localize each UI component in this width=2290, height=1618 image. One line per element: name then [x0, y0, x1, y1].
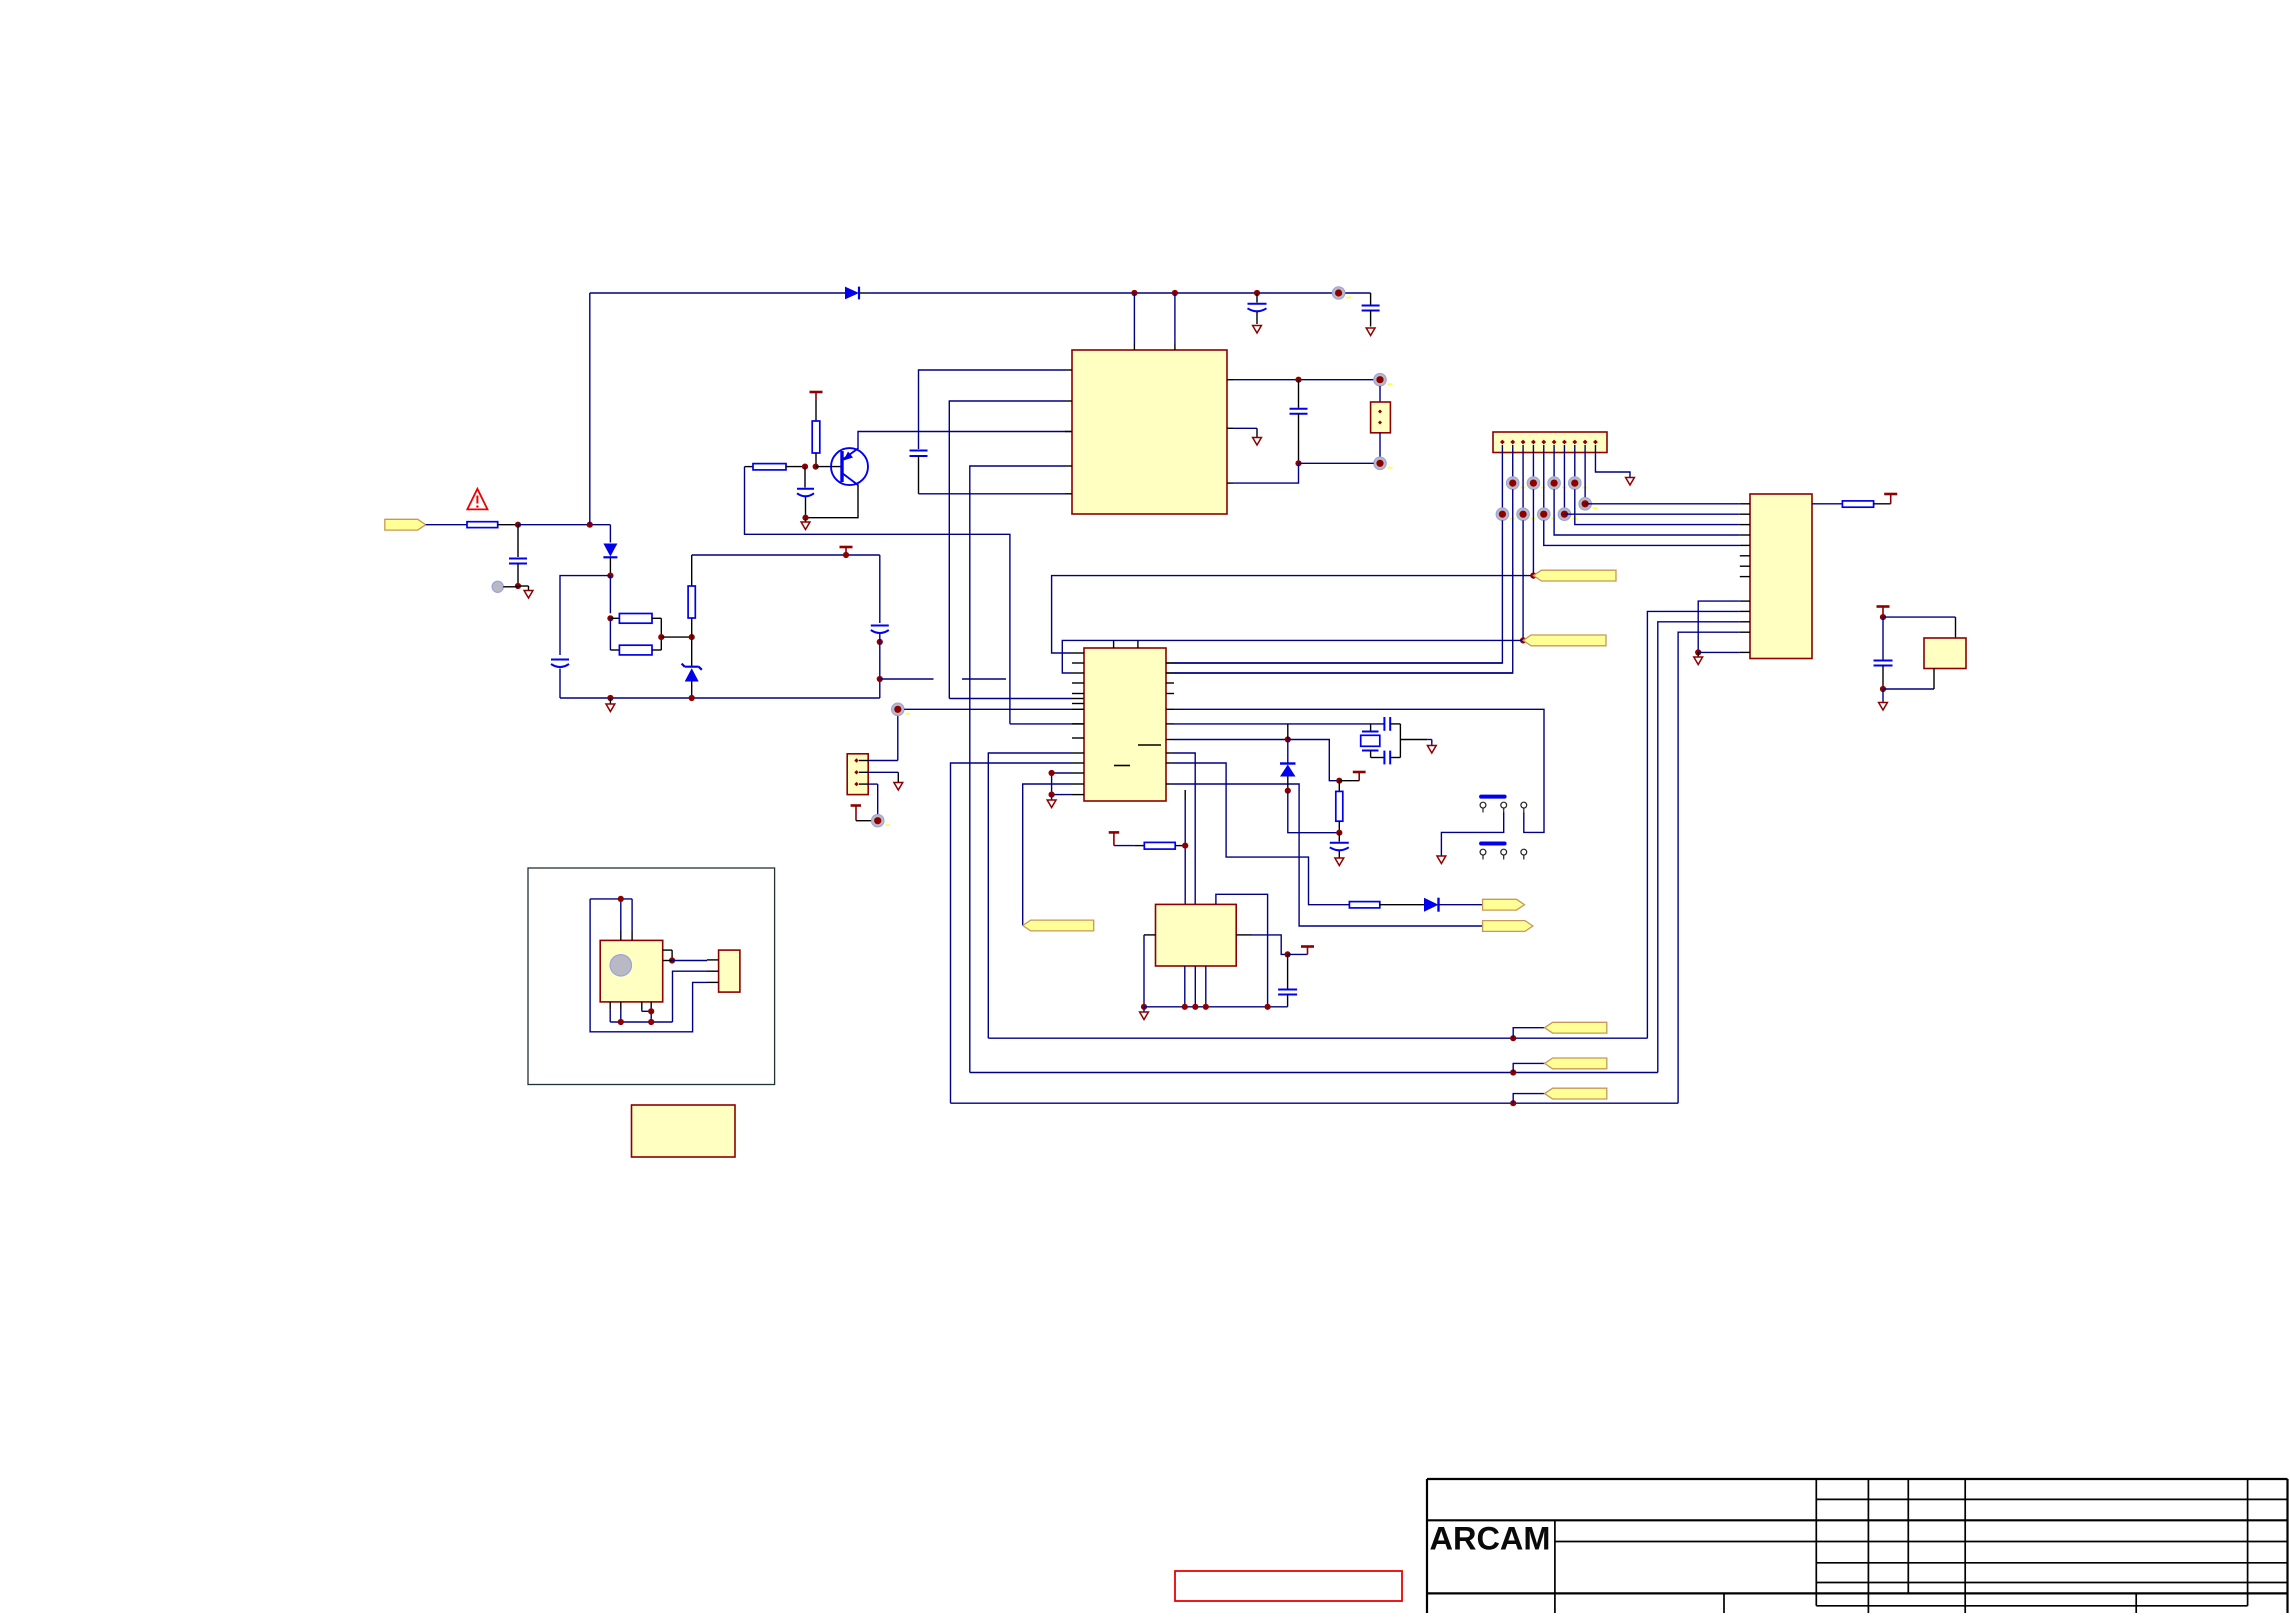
wire p1 net	[1174, 662, 1502, 664]
wire xtal gnd	[1399, 724, 1401, 758]
wire MCU dn2	[951, 763, 1073, 1103]
junction	[843, 552, 849, 558]
junction	[1285, 736, 1291, 742]
wire R2R3 right	[660, 618, 662, 650]
wire bus3 flag riser	[1513, 1094, 1544, 1104]
junction	[813, 464, 819, 470]
junction	[1695, 649, 1701, 655]
junction	[607, 615, 613, 621]
capacitor C12	[1383, 717, 1385, 731]
capacitor C1	[1256, 293, 1258, 303]
diode D5	[1287, 740, 1289, 763]
wire input to R1	[426, 524, 467, 526]
wire stub right 2	[962, 678, 1006, 680]
test point	[1496, 508, 1509, 521]
wire left branch	[560, 576, 610, 655]
IC U3	[1156, 904, 1237, 966]
wire p9 to U2	[1584, 510, 1586, 514]
wire sensor out2	[663, 960, 672, 962]
wire base	[816, 466, 842, 468]
wire p3 to flag	[1522, 520, 1524, 640]
ground	[1335, 858, 1344, 866]
junction	[1172, 290, 1178, 296]
resistor R2	[610, 617, 619, 619]
junction	[658, 634, 664, 640]
wire bus2	[970, 1072, 1658, 1074]
junction	[802, 515, 808, 521]
wire to U4	[1883, 616, 1956, 618]
ground	[1253, 326, 1262, 334]
wire U1 pin1 to C7	[919, 370, 1066, 449]
wire cap to rail	[559, 669, 561, 699]
diode D2	[603, 544, 617, 557]
wire diode row	[1174, 739, 1288, 741]
junction	[877, 639, 883, 645]
wire sensor out1	[663, 949, 672, 951]
flag BUS3	[1545, 1088, 1607, 1099]
wire J1 p5	[1543, 445, 1545, 508]
assembly outline	[528, 868, 775, 1085]
junction	[802, 464, 808, 470]
wire J1 p4	[1532, 445, 1534, 477]
wire U3 gnd rail	[1144, 1006, 1288, 1008]
wire loop right	[879, 555, 881, 623]
wire p2 to MCU	[1174, 489, 1513, 673]
wire p2 net	[1174, 672, 1513, 674]
capacitor C6	[804, 467, 806, 488]
flag OUT1	[1483, 899, 1525, 910]
wire U2 b	[1658, 622, 1740, 1073]
wire U1 out net	[1233, 379, 1374, 381]
pin stubs U2 left	[1740, 503, 1750, 505]
wire p5 to U2	[1544, 520, 1740, 545]
junction	[1265, 1004, 1271, 1010]
wire sensor bottom	[609, 1002, 611, 1010]
wire J4 p2 gnd	[868, 771, 898, 773]
wire loop bottom rail	[560, 697, 880, 699]
wire xtal stub	[1287, 724, 1289, 740]
pin stubs U5 left	[1072, 652, 1084, 654]
ground	[1427, 746, 1436, 754]
wire U3 out	[1236, 934, 1252, 936]
net port	[492, 581, 503, 592]
ground	[1697, 652, 1699, 656]
test point	[1558, 508, 1571, 521]
capacitor C9	[1882, 617, 1884, 659]
wire C7 to U1	[919, 493, 1066, 495]
junction	[1182, 843, 1188, 849]
wire U3 bottom pins	[1184, 966, 1186, 1007]
flag OUT2	[1483, 921, 1533, 932]
wire J1 p6	[1553, 445, 1555, 477]
junction	[1049, 770, 1055, 776]
warning symbol	[467, 489, 487, 510]
capacitor C10	[1338, 833, 1340, 842]
switch SW1	[1481, 795, 1505, 799]
junction	[587, 522, 593, 528]
junction	[1049, 792, 1055, 798]
wire to R4 node	[661, 636, 691, 638]
IC U2	[1750, 494, 1812, 659]
capacitor C3	[517, 525, 519, 557]
wire J4 p1 to TP4	[868, 760, 898, 762]
junction	[607, 695, 613, 701]
resistor R5	[812, 421, 820, 453]
wire zener branch	[609, 576, 611, 614]
resistor R8	[1349, 902, 1379, 908]
junction	[877, 676, 883, 682]
ground	[1366, 328, 1375, 336]
junction	[648, 1008, 654, 1014]
wire p4 to flag	[1532, 489, 1534, 575]
junction	[1530, 573, 1536, 579]
wire gnd pin	[1698, 651, 1740, 653]
transistor Q1	[831, 448, 868, 485]
wire U3 pin3 net	[1216, 894, 1268, 1007]
wire U2 c	[1678, 632, 1740, 1103]
wire J1 p1	[1501, 445, 1503, 508]
wire J1 p3	[1522, 445, 1524, 508]
junction	[1510, 1035, 1516, 1041]
test point	[1517, 508, 1530, 521]
power tap	[810, 391, 823, 394]
wire U1 vdd pins	[1133, 293, 1135, 344]
wire U1 pin2	[949, 401, 1065, 699]
wire to R10	[1288, 740, 1340, 781]
wire flag3 net	[1023, 784, 1072, 926]
test point TP2	[1374, 373, 1387, 386]
junction	[1192, 1004, 1198, 1010]
power tap	[1884, 493, 1897, 496]
junction	[1203, 1004, 1209, 1010]
wire bus2 flag riser	[1513, 1063, 1544, 1072]
flag BUS2	[1545, 1058, 1607, 1069]
junction	[669, 957, 675, 963]
capacitor C11	[1287, 954, 1289, 988]
junction	[515, 522, 521, 528]
junction	[648, 1019, 654, 1025]
wire sensor pin2 net	[673, 971, 708, 1022]
wire bus3	[951, 1102, 1679, 1104]
wire U2 gnd net	[1698, 601, 1740, 652]
junction	[1285, 788, 1291, 794]
junction	[1285, 951, 1291, 957]
connector J2	[719, 950, 740, 992]
junction	[1520, 637, 1526, 643]
wire SW1 gnd	[1441, 813, 1503, 856]
capacitor C4	[551, 659, 569, 661]
switch SW2	[1481, 842, 1505, 846]
capacitor C13	[1371, 757, 1385, 759]
wire J4 p3	[868, 783, 878, 785]
ground	[894, 783, 903, 791]
crystal X1	[1370, 724, 1372, 732]
sensor U6	[600, 940, 663, 1002]
wire sensor loop	[620, 899, 622, 931]
capacitor C8	[1298, 380, 1300, 408]
wire top rail right	[868, 292, 1371, 294]
IC U4	[1924, 638, 1966, 669]
flag SENSE	[1023, 920, 1094, 931]
wire U2 a	[1647, 611, 1739, 1038]
capacitor C2	[1370, 293, 1372, 305]
pin stubs U1 right	[1227, 379, 1233, 381]
test point	[1579, 498, 1592, 511]
resistor R4	[691, 555, 693, 586]
ground	[518, 585, 529, 587]
junction	[618, 1019, 624, 1025]
wire MCU dn1	[988, 753, 1072, 1038]
wire top rail left	[590, 292, 845, 294]
resistor R7	[1812, 503, 1842, 505]
wire res diode net	[1174, 763, 1349, 905]
test point TP5	[871, 814, 884, 827]
wire loop top rail	[692, 554, 880, 556]
resistor R10	[1338, 781, 1340, 792]
wire U4 gnd	[1883, 688, 1934, 690]
junction	[689, 695, 695, 701]
ground	[805, 518, 807, 522]
test point	[1506, 477, 1519, 490]
test point TP3	[1374, 457, 1387, 470]
wire cap to corner	[879, 634, 881, 698]
power tap	[1114, 845, 1134, 847]
junction	[607, 573, 613, 579]
ground	[1051, 795, 1053, 800]
wire U1 pin4	[970, 466, 1065, 1073]
power tap	[840, 546, 853, 549]
svg-text:ARCAM: ARCAM	[1430, 1521, 1551, 1557]
input power flag	[385, 519, 426, 530]
wire zener loop	[1288, 791, 1340, 833]
junction	[1880, 614, 1886, 620]
power tap	[1339, 780, 1359, 782]
wire TP4 to MCU	[904, 708, 1072, 710]
junction	[1510, 1100, 1516, 1106]
MCU internal marks	[1138, 744, 1161, 746]
wire bus1 flag riser	[1513, 1028, 1544, 1039]
ground	[1253, 438, 1262, 446]
IC U1	[1072, 350, 1227, 514]
wire flag2 net	[1062, 640, 1523, 673]
junction	[1131, 290, 1137, 296]
test point TP4	[892, 703, 905, 716]
wire flag1 net	[1052, 576, 1534, 653]
resistor R3	[610, 649, 619, 651]
flag RX	[1523, 635, 1606, 646]
wire flag net2	[1174, 784, 1483, 926]
wire MCU gnd pins	[1052, 772, 1072, 774]
junction	[1510, 1069, 1516, 1075]
jumper J3	[1379, 386, 1381, 402]
wire to MCU pin	[949, 698, 1072, 700]
wire U1 gnd pin	[1233, 427, 1257, 429]
wire J1 p10 gnd	[1595, 445, 1630, 477]
wire J1 p2	[1512, 445, 1514, 477]
ground	[1626, 478, 1635, 486]
capacitor C7	[910, 450, 928, 452]
test point	[1537, 508, 1550, 521]
junction	[515, 583, 521, 589]
power tap	[1877, 605, 1890, 608]
wire node to diode branch	[518, 524, 610, 526]
wire riser to top rail	[589, 293, 591, 525]
pin stubs U1 left	[1065, 369, 1072, 371]
junction	[618, 896, 624, 902]
MCU U5	[1084, 648, 1166, 801]
wire U3 left gnd	[1144, 934, 1156, 936]
junction	[1182, 1004, 1188, 1010]
ground	[1882, 689, 1884, 702]
wire p8 to U2	[1575, 489, 1740, 524]
junction	[1880, 686, 1886, 692]
flag TX	[1533, 570, 1616, 581]
wire U3 riser B	[1174, 753, 1195, 904]
wire U1 pin lower	[1233, 463, 1299, 483]
power tap	[1288, 953, 1308, 955]
wire p1 to MCU	[1174, 520, 1502, 663]
wire R2R3 left	[609, 618, 611, 650]
wire p6 to U2	[1554, 489, 1740, 535]
test point	[1548, 477, 1561, 490]
note box	[632, 1105, 736, 1157]
wire stub right	[880, 678, 934, 680]
junction	[1336, 830, 1342, 836]
wire sensor rail	[610, 1021, 672, 1023]
diode D4	[1424, 898, 1439, 912]
wire to MCU	[1010, 723, 1072, 725]
wire p7 to U2	[1564, 513, 1739, 515]
flag BUS1	[1545, 1022, 1607, 1033]
diode D1	[845, 287, 859, 300]
wire to diode D2	[609, 525, 611, 543]
junction	[1336, 778, 1342, 784]
junction	[1254, 290, 1260, 296]
wire J1 p8	[1574, 445, 1576, 477]
power tap	[851, 804, 861, 807]
junction	[1141, 1004, 1147, 1010]
wire crystal net	[1174, 723, 1384, 725]
wire bus1	[988, 1037, 1647, 1039]
zener D3	[691, 637, 693, 666]
wire emitter	[806, 485, 859, 518]
resistor R6	[745, 466, 754, 468]
wire collector	[858, 432, 1066, 450]
test point	[1568, 477, 1581, 490]
pin stubs U5 right	[1166, 662, 1174, 664]
junction	[1295, 377, 1301, 383]
ground	[609, 698, 611, 704]
capacitor C5	[871, 625, 889, 627]
junction	[689, 634, 695, 640]
connector J1	[1493, 432, 1607, 453]
junction	[1295, 460, 1301, 466]
ground	[1143, 1007, 1145, 1012]
wire TP3 net	[1299, 462, 1374, 464]
connector J4	[847, 754, 868, 795]
test point	[1527, 477, 1540, 490]
wire U3 riser A	[1184, 790, 1186, 800]
pin stubs U5 top	[1113, 641, 1115, 648]
junction	[1530, 573, 1536, 579]
wire switch net	[1174, 709, 1544, 832]
ground	[1437, 856, 1446, 864]
wire base net	[745, 467, 1010, 724]
revision stamp	[1175, 1571, 1402, 1601]
wire J1 p9	[1584, 445, 1586, 498]
resistor R1	[467, 522, 498, 528]
test point TP1	[1332, 287, 1345, 300]
wire J1 p7	[1563, 445, 1565, 508]
title block	[1427, 1478, 2288, 1480]
resistor R9	[1134, 845, 1144, 847]
